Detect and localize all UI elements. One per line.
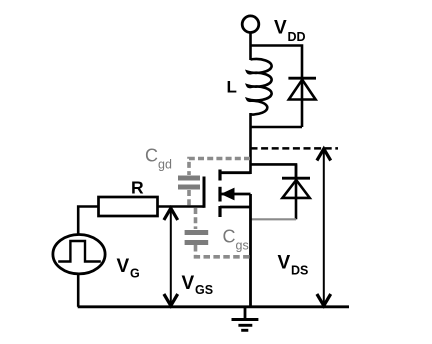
node drain dashed line	[251, 147, 339, 150]
diode body	[282, 164, 310, 219]
svg-text:DS: DS	[291, 264, 308, 278]
wire VG bottom	[77, 274, 80, 307]
svg-text:GS: GS	[195, 283, 213, 297]
svg-text:DD: DD	[288, 30, 306, 44]
svg-text:R: R	[131, 178, 144, 198]
arrow VDS	[317, 149, 331, 306]
svg-text:V: V	[182, 273, 195, 294]
svg-text:gs: gs	[236, 239, 249, 253]
label VDS	[278, 253, 309, 278]
svg-text:L: L	[227, 78, 237, 97]
ground	[232, 307, 259, 331]
wire drain	[249, 113, 252, 174]
wire source	[249, 194, 252, 307]
svg-text:V: V	[278, 253, 291, 274]
svg-text:gd: gd	[158, 158, 172, 172]
svg-text:C: C	[223, 227, 236, 247]
wire loop bottom	[251, 126, 303, 129]
resistor R	[99, 197, 158, 216]
wire body diode anode to source (gray)	[251, 218, 297, 220]
wire drain to body diode	[251, 164, 297, 178]
inductor L	[247, 59, 271, 114]
wire bottom rail	[78, 305, 349, 308]
svg-text:V: V	[274, 18, 287, 39]
source VG	[53, 235, 105, 274]
svg-text:C: C	[145, 146, 158, 166]
capacitor Cgd	[178, 159, 250, 207]
svg-text:V: V	[117, 256, 130, 277]
mosfet Q1	[204, 170, 251, 218]
label VG	[117, 256, 140, 281]
capacitor Cgs	[185, 208, 252, 257]
wire terminal to node	[249, 32, 252, 60]
diode D1 freewheeling	[288, 78, 316, 127]
terminal VDD	[242, 16, 259, 33]
label VDD	[274, 18, 306, 45]
wire R to gate	[159, 205, 205, 208]
svg-text:G: G	[130, 267, 140, 281]
label Cgs	[223, 227, 249, 253]
label VGS	[182, 273, 214, 297]
arrow VGS	[164, 208, 178, 306]
label Cgd	[145, 146, 172, 172]
wire VG to R	[78, 207, 99, 235]
wire loop top	[251, 46, 303, 79]
